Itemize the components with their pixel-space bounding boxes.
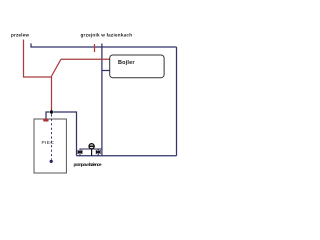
valve V2 right xyxy=(96,150,100,153)
pump stem xyxy=(91,149,93,156)
wire: return to frame under pump (navy) xyxy=(77,155,102,157)
wire: red supply to boiler xyxy=(61,58,110,60)
furnace box PIEC xyxy=(34,119,66,173)
pump bypass loop xyxy=(80,149,102,156)
wire: przelew red vertical xyxy=(23,40,25,78)
valve V1 left xyxy=(78,150,82,153)
wire: red diagonal riser xyxy=(51,59,61,77)
node: red tap tick on radiator line xyxy=(94,44,96,52)
wire: frame bottom horizontal (navy) xyxy=(102,155,177,157)
pump P1 xyxy=(89,144,94,149)
wire: boiler return stub (navy) xyxy=(102,70,110,72)
node: sensor bulb dot xyxy=(50,160,53,163)
svg-text:PIEC: PIEC xyxy=(42,140,55,145)
boiler box Bojler xyxy=(110,55,164,78)
node: junction diamond xyxy=(49,110,54,115)
wire: sensor dashed line (navy) xyxy=(51,115,53,160)
wire: red lower horizontal xyxy=(23,76,52,78)
wire: red drop to furnace junction xyxy=(51,77,53,111)
wire: radiator return top horizontal (navy) xyxy=(31,43,177,47)
svg-text:Bojler: Bojler xyxy=(118,60,135,66)
svg-text:pompa w łazience: pompa w łazience xyxy=(74,162,102,167)
wire: frame left vertical (navy) xyxy=(101,44,103,156)
node: red fitting on furnace top xyxy=(43,119,48,122)
wire: junction to furnace elbow (navy) xyxy=(46,112,49,119)
pump rotor bar xyxy=(89,145,95,147)
svg-text:grzejnik w łazienkach: grzejnik w łazienkach xyxy=(81,33,133,38)
wire: right valve drop xyxy=(97,149,99,156)
svg-text:przelew: przelew xyxy=(11,33,29,38)
wire: furnace return run (navy) xyxy=(54,112,77,156)
wire: frame right vertical (navy) xyxy=(176,47,178,156)
